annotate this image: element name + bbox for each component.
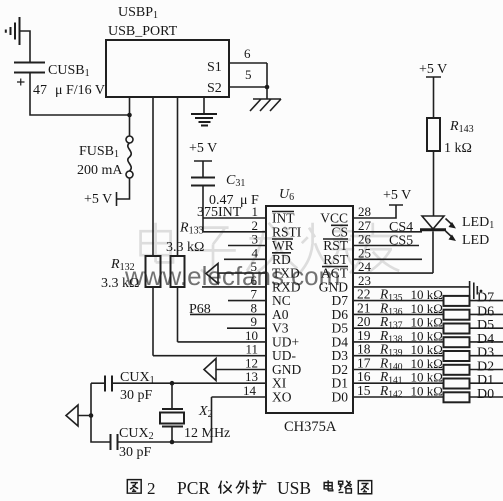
ground	[6, 17, 20, 45]
wire	[432, 231, 434, 273]
wire	[20, 31, 30, 63]
svg-text:INT: INT	[272, 211, 295, 226]
wire	[266, 63, 268, 99]
svg-text:CUX2: CUX2	[119, 426, 154, 442]
svg-text:RST: RST	[323, 238, 349, 253]
wire pin24	[353, 259, 433, 274]
svg-text:10 kΩ: 10 kΩ	[411, 383, 443, 398]
wire	[91, 383, 111, 442]
svg-text:XO: XO	[272, 390, 292, 405]
capacitor CUX1	[105, 370, 155, 403]
svg-text:10 kΩ: 10 kΩ	[411, 370, 443, 385]
svg-text:RD: RD	[272, 252, 291, 267]
svg-text:10 kΩ: 10 kΩ	[411, 342, 443, 357]
wire pin23	[353, 273, 470, 288]
wire pin16	[353, 369, 503, 384]
node	[265, 85, 270, 90]
ground triangle	[66, 405, 91, 426]
crystal X2	[160, 404, 230, 441]
resistor R141	[379, 369, 470, 388]
wire	[152, 97, 154, 256]
svg-text:PCR: PCR	[177, 478, 210, 498]
svg-text:D0: D0	[477, 387, 494, 402]
svg-text:USB_PORT: USB_PORT	[108, 24, 178, 39]
svg-text:NC: NC	[272, 293, 291, 308]
svg-text:D1: D1	[332, 376, 349, 391]
wire pin27	[353, 218, 422, 235]
wire pin6 S1	[229, 46, 267, 63]
resistor R133	[166, 221, 204, 288]
svg-text:LED: LED	[462, 233, 489, 248]
svg-text:+5 V: +5 V	[383, 188, 411, 203]
connector JT	[470, 281, 483, 301]
svg-text:200 mA: 200 mA	[77, 163, 123, 178]
svg-text:11: 11	[245, 342, 258, 357]
svg-text:5: 5	[245, 67, 252, 82]
svg-text:18: 18	[357, 342, 371, 357]
svg-text:RST: RST	[323, 252, 349, 267]
wire pin5	[218, 259, 266, 274]
wire pin22	[353, 287, 503, 302]
triangle TXD	[206, 264, 218, 284]
capacitor CUX2	[111, 426, 154, 460]
pin label ACT	[321, 266, 349, 281]
svg-text:S2: S2	[207, 81, 222, 96]
wire	[117, 178, 130, 206]
wire pin2	[203, 218, 266, 233]
wire	[202, 186, 204, 232]
ground	[250, 99, 281, 111]
wire	[171, 427, 173, 443]
svg-text:4: 4	[252, 245, 259, 260]
net +5V R143	[419, 62, 447, 118]
pin label WR	[272, 238, 294, 253]
svg-text:μ F/16 V: μ F/16 V	[55, 83, 105, 98]
wire pin20	[353, 314, 503, 329]
wire pin21	[353, 300, 503, 315]
svg-text:14: 14	[243, 383, 257, 398]
svg-text:8: 8	[251, 300, 258, 315]
wire pin1	[203, 204, 266, 219]
svg-text:+5 V: +5 V	[419, 62, 447, 77]
svg-text:5: 5	[251, 259, 258, 274]
svg-text:S1: S1	[207, 60, 222, 75]
svg-text:21: 21	[357, 300, 371, 315]
svg-text:6: 6	[244, 46, 251, 61]
wire pin5 S2	[229, 67, 267, 87]
resistor R140	[379, 356, 470, 375]
wire	[177, 97, 179, 256]
wire	[177, 287, 179, 342]
svg-text:1: 1	[252, 204, 259, 219]
wire	[152, 287, 154, 356]
wire pin4	[224, 245, 266, 260]
svg-text:16: 16	[357, 369, 371, 384]
svg-text:WR: WR	[272, 238, 294, 253]
svg-text:10 kΩ: 10 kΩ	[411, 287, 443, 302]
wire	[171, 383, 173, 409]
svg-text:+5 V: +5 V	[189, 141, 217, 156]
wire pin26	[353, 232, 419, 249]
wire	[203, 97, 205, 114]
LED LED1	[420, 215, 494, 248]
svg-text:TXD: TXD	[272, 266, 300, 281]
svg-text:CUSB1: CUSB1	[48, 63, 90, 79]
svg-text:D3: D3	[477, 346, 494, 361]
caption	[127, 480, 371, 494]
wire pin28	[353, 204, 403, 219]
svg-text:7: 7	[251, 287, 258, 302]
svg-text:12 MHz: 12 MHz	[184, 426, 230, 441]
svg-text:USB: USB	[277, 478, 311, 498]
resistor R132	[101, 256, 161, 291]
svg-text:25: 25	[358, 245, 371, 260]
svg-text:3.3 kΩ: 3.3 kΩ	[101, 276, 139, 291]
svg-text:UD+: UD+	[272, 334, 299, 349]
node	[170, 440, 175, 445]
node XI	[170, 381, 175, 386]
node	[127, 113, 132, 118]
ground	[191, 114, 217, 126]
svg-text:D4: D4	[332, 334, 349, 349]
svg-text:D0: D0	[332, 390, 349, 405]
wire pin18	[353, 342, 503, 357]
wire pin25	[353, 245, 422, 260]
capacitor CUSB1	[14, 63, 105, 99]
resistor R135	[379, 287, 470, 306]
svg-text:D1: D1	[477, 373, 494, 388]
svg-text:30 pF: 30 pF	[119, 445, 152, 460]
svg-text:3.3 kΩ: 3.3 kΩ	[166, 240, 204, 255]
svg-text:3: 3	[252, 232, 259, 247]
resistor R143	[427, 118, 474, 156]
svg-text:CUX1: CUX1	[120, 370, 155, 386]
node	[89, 413, 94, 418]
svg-text:10: 10	[245, 328, 258, 343]
pin label INT	[272, 211, 295, 226]
wire pin15	[353, 383, 503, 398]
wire pin13	[112, 369, 266, 384]
wire pin3	[228, 232, 266, 247]
svg-text:D7: D7	[477, 291, 494, 306]
svg-text:FUSB1: FUSB1	[79, 144, 119, 160]
wire pin11	[153, 342, 266, 357]
wire	[129, 97, 131, 136]
svg-text:CS5: CS5	[389, 234, 413, 249]
svg-text:24: 24	[358, 259, 372, 274]
wire pin6	[202, 273, 266, 288]
svg-text:13: 13	[245, 369, 258, 384]
wire	[118, 397, 212, 442]
wire pin9	[227, 314, 266, 329]
wire pin10	[178, 328, 267, 343]
svg-text:28: 28	[358, 204, 371, 219]
svg-text:VCC: VCC	[320, 211, 348, 226]
pin label RST26	[323, 238, 349, 253]
pin label RD	[272, 252, 291, 267]
wire pin7	[228, 287, 266, 302]
svg-text:UD-: UD-	[272, 348, 296, 363]
wire	[91, 382, 105, 384]
IC U6	[266, 187, 353, 435]
capacitor C31	[191, 173, 259, 208]
wire pin19	[353, 328, 503, 343]
resistor R142	[379, 383, 470, 402]
svg-text:D7: D7	[332, 293, 349, 308]
svg-text:15: 15	[357, 383, 371, 398]
wire	[433, 151, 435, 216]
svg-text:ACT: ACT	[321, 266, 349, 281]
wire pin17	[353, 356, 503, 371]
connector USBP1 USB_PORT	[106, 5, 229, 97]
svg-text:D4: D4	[477, 332, 494, 347]
svg-text:1 kΩ: 1 kΩ	[444, 141, 472, 156]
wire pin14	[212, 383, 267, 398]
svg-text:D6: D6	[332, 307, 349, 322]
svg-text:D6: D6	[477, 304, 494, 319]
net +5V	[189, 141, 217, 178]
svg-text:+5 V: +5 V	[84, 192, 112, 207]
svg-text:47: 47	[33, 83, 47, 98]
triangle GND12	[204, 359, 216, 381]
svg-text:USBP1: USBP1	[118, 5, 158, 21]
resistor R137	[379, 314, 470, 333]
svg-text:26: 26	[358, 232, 372, 247]
svg-text:CH375A: CH375A	[284, 419, 337, 435]
svg-text:D3: D3	[332, 348, 349, 363]
pin label CS	[331, 224, 348, 239]
wire	[30, 73, 128, 116]
svg-text:2: 2	[147, 479, 156, 498]
svg-text:A0: A0	[272, 307, 289, 322]
svg-text:10 kΩ: 10 kΩ	[411, 301, 443, 316]
resistor R136	[379, 300, 470, 319]
fuse FUSB1	[77, 136, 133, 178]
resistor R139	[379, 342, 470, 361]
svg-text:30 pF: 30 pF	[120, 388, 153, 403]
svg-text:10 kΩ: 10 kΩ	[411, 328, 443, 343]
wire pin12	[216, 356, 266, 371]
svg-text:XI: XI	[272, 376, 287, 391]
resistor R138	[379, 328, 470, 347]
svg-text:22: 22	[357, 287, 371, 302]
wire pin8	[190, 300, 266, 315]
svg-text:19: 19	[357, 328, 371, 343]
